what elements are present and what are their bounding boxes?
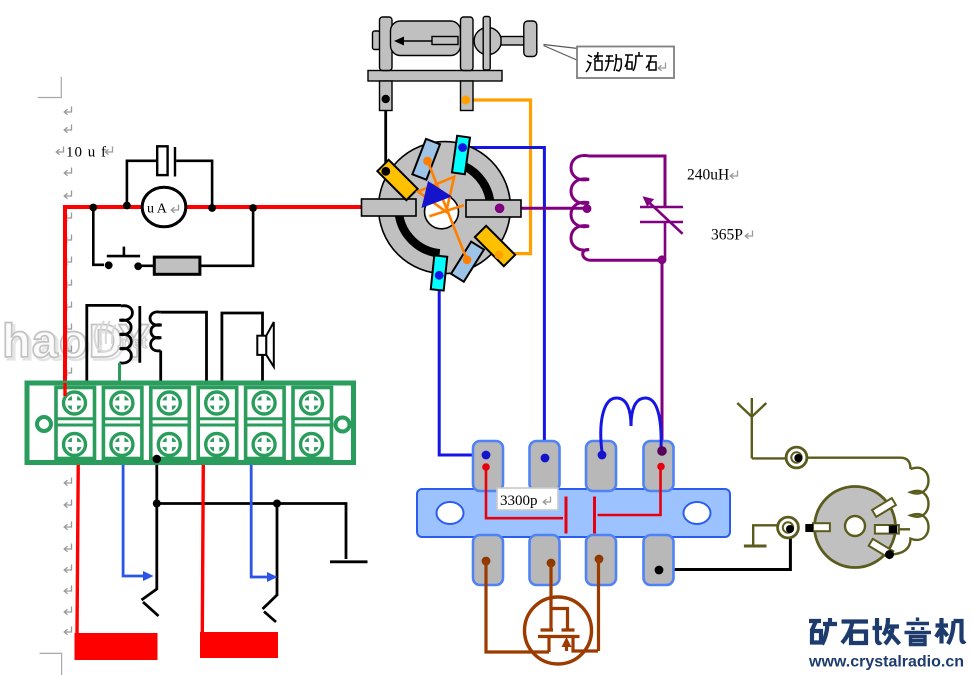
wire black from detector left leg down to rotary yellow tab bbox=[384, 99, 387, 170]
wire red cap to post4 bbox=[598, 467, 661, 516]
node blue dot on cyan tab bbox=[458, 143, 467, 152]
node black dot terminal 3 bottom bbox=[153, 455, 161, 463]
wire connector to coil bbox=[807, 458, 911, 469]
node black dot on yellow tab bbox=[381, 167, 390, 176]
detector knob bbox=[524, 21, 537, 57]
node brown dots on bottom posts bbox=[482, 557, 491, 566]
gate 2 lead shape bbox=[552, 609, 568, 630]
char 矿 bbox=[625, 52, 643, 71]
wire post1 bottom to source bbox=[486, 561, 549, 652]
crystal holder hole bbox=[845, 516, 865, 536]
node black dot post 4 bottom bbox=[655, 566, 664, 575]
node dot bbox=[134, 262, 142, 270]
battery red block 2 bbox=[200, 632, 278, 658]
wire red battery 2 lead bbox=[202, 465, 203, 632]
detector base bar bbox=[368, 71, 502, 82]
wire red bus from battery corner to rotary switch left tab bbox=[65, 207, 362, 396]
rotary yellow tab bottom-right bbox=[475, 226, 515, 266]
wire secondary bottom to terminal 3 bbox=[159, 351, 162, 384]
strip hole right bbox=[684, 502, 711, 524]
green terminal block body bbox=[27, 383, 354, 463]
node junction dot bbox=[153, 500, 161, 508]
rotary cyan tab bottom bbox=[431, 255, 447, 290]
speaker LS1 box bbox=[257, 336, 266, 355]
wire blue from rotary top cyan tab to terminal post 2 bbox=[463, 148, 545, 456]
3300p label box bbox=[497, 488, 558, 510]
transformer core bar bbox=[138, 306, 141, 363]
strip hole left bbox=[437, 502, 464, 524]
char 活 bbox=[586, 52, 603, 72]
detector thin post bbox=[483, 17, 490, 71]
antenna symbol bbox=[737, 398, 766, 458]
char 音 bbox=[905, 618, 932, 645]
connector J1 antenna binding post bbox=[786, 447, 807, 468]
wire to resistor bbox=[141, 264, 154, 267]
source lead bbox=[547, 637, 550, 653]
callout box 活动矿石 bbox=[577, 47, 674, 79]
svg-text:240uH: 240uH bbox=[687, 167, 729, 184]
diode axis orange line bbox=[428, 161, 468, 260]
holder slot left bbox=[813, 523, 830, 531]
callout leader lines bbox=[544, 45, 579, 61]
rotary right tab bbox=[466, 200, 521, 217]
node orange dot top tab bbox=[423, 157, 432, 166]
antenna coil L2 bbox=[890, 468, 929, 555]
coil tap wire bbox=[897, 528, 910, 530]
rotary light-blue tab bottom bbox=[451, 242, 484, 282]
node purple dot post 4 bbox=[657, 446, 667, 456]
transistor circle bbox=[525, 597, 592, 664]
node black dot bottom slot bbox=[885, 550, 894, 559]
gate bars bbox=[541, 628, 575, 631]
node dot bbox=[105, 261, 113, 269]
node orange dot bottom tab bbox=[463, 255, 472, 264]
electrolytic capacitor 10uF plate 1 bbox=[157, 146, 167, 175]
rotary wave-change switch disc bbox=[379, 142, 511, 274]
push button switch bbox=[107, 247, 140, 257]
svg-text:3300p: 3300p bbox=[500, 493, 538, 509]
wire blue arrow lead 2 bbox=[251, 461, 270, 577]
substrate bracket bbox=[573, 638, 598, 652]
terminal cells bbox=[56, 388, 332, 459]
rotary black arc contact bottom-left bbox=[399, 213, 440, 253]
detector stand assembly bbox=[368, 17, 537, 111]
transformer T1 primary coil bbox=[119, 306, 132, 363]
meter uA circle bbox=[142, 187, 186, 227]
svg-text:www.crystalradio.cn: www.crystalradio.cn bbox=[808, 654, 964, 671]
blue terminal strip bar bbox=[417, 489, 730, 537]
channel bar bbox=[538, 635, 580, 638]
wire red post1 to cap bbox=[486, 467, 563, 518]
wire red into terminal 1 bbox=[63, 383, 66, 396]
switch lever S2 open bbox=[263, 595, 278, 622]
crystal holder disc bbox=[815, 487, 896, 568]
wire purple from LC junction down to terminal post 4 bbox=[661, 260, 664, 451]
node dot bbox=[89, 204, 97, 212]
mounting hole right bbox=[336, 418, 350, 432]
node purple junction dot bbox=[658, 255, 667, 264]
detector left leg bbox=[380, 81, 393, 111]
node purple tap dot bbox=[583, 204, 592, 213]
detector left end tab bbox=[373, 31, 381, 50]
detector right leg bbox=[461, 81, 474, 111]
holder slot right bbox=[875, 525, 899, 534]
wire black from right connector to terminal post 4 bottom bbox=[659, 529, 790, 570]
detector handle rod bbox=[501, 37, 525, 46]
node blue dot on bottom cyan tab bbox=[435, 271, 444, 280]
svg-text:u A: u A bbox=[147, 202, 168, 217]
connector J2 ground binding post bbox=[778, 517, 799, 538]
page margin corner mark top-left bbox=[38, 77, 62, 98]
wire capacitor left lead bbox=[127, 161, 157, 204]
rotary left tab bbox=[362, 199, 417, 216]
rotary center hole bbox=[425, 195, 459, 229]
char 动 bbox=[605, 54, 621, 71]
wire orange from detector right leg to rotary yellow tab lower-right bbox=[466, 100, 531, 254]
resistor R1 bbox=[154, 257, 200, 274]
substrate arrow lead bbox=[565, 642, 568, 651]
diode triangle blue fill bbox=[422, 181, 453, 208]
node black dot on left leg bbox=[382, 95, 390, 103]
node blue dots on top posts bbox=[482, 451, 491, 460]
wire speaker loop bbox=[222, 313, 263, 384]
rotary light-blue tab top bbox=[412, 139, 440, 180]
svg-text:365P: 365P bbox=[711, 227, 743, 244]
transformer T1 primary wire bbox=[87, 305, 121, 381]
wire post2 bottom gate lead bbox=[549, 563, 552, 629]
node orange dot yellow tab bbox=[494, 250, 503, 259]
paragraph marks column bbox=[56, 107, 112, 635]
char 收 bbox=[873, 618, 900, 644]
wire coil top to cap bbox=[589, 156, 665, 207]
detector ball joint bbox=[474, 27, 501, 54]
node dot bbox=[208, 204, 216, 212]
strip posts grey bbox=[473, 441, 674, 585]
char 石 bbox=[842, 622, 869, 644]
inductor L1 240uH purple coil bbox=[571, 155, 592, 260]
holder slot top-right bbox=[872, 498, 896, 517]
wire antenna to connector bbox=[752, 457, 786, 459]
wire capacitor right lead bbox=[176, 161, 212, 206]
wire purple from rotary right tab to coil tap bbox=[500, 207, 587, 210]
rotary cyan tab top-right bbox=[452, 136, 470, 174]
char 机 bbox=[936, 618, 966, 644]
capacitor plate 2 bbox=[174, 147, 176, 177]
wire branch to push switch bbox=[93, 208, 104, 265]
wire green coil tail to terminal 2 bbox=[118, 363, 121, 384]
detector middle post bbox=[461, 17, 474, 71]
mounting hole left bbox=[37, 417, 51, 431]
holder black square left bbox=[805, 524, 813, 532]
holder slot bottom-right bbox=[869, 539, 894, 558]
logo 矿石收音机 bbox=[809, 618, 965, 645]
node purple dot right tab bbox=[495, 204, 505, 214]
substrate arrowhead bbox=[562, 637, 572, 647]
blue jumper arcs posts 3-4 bbox=[601, 398, 661, 452]
diode cathode bar orange bbox=[429, 205, 464, 216]
svg-text:10 u f: 10 u f bbox=[66, 145, 107, 161]
rotary black arc contact top-right bbox=[465, 166, 491, 205]
holder black square right bbox=[889, 525, 897, 533]
rotary yellow tab top-left bbox=[377, 160, 417, 200]
node dot bbox=[123, 202, 131, 210]
terminal screws bbox=[64, 392, 323, 456]
detector left post bbox=[380, 17, 393, 71]
paragraph mark in callout bbox=[658, 63, 665, 71]
wire blue from rotary bottom cyan tab to terminal post 1 bbox=[439, 275, 486, 455]
detector arrow bbox=[399, 40, 432, 42]
transistor Q1 circuit brown bbox=[486, 559, 599, 652]
wire connector to ground bbox=[753, 525, 777, 545]
node orange dot on right leg bbox=[461, 96, 470, 105]
transformer T1 secondary coil bbox=[150, 312, 161, 351]
char 矿 bbox=[809, 618, 837, 645]
node red dots posts 1 and 4 bbox=[482, 463, 490, 471]
speaker horn bbox=[266, 322, 274, 367]
wire resistor to red bus bbox=[200, 209, 253, 266]
wire post3 bottom lead bbox=[597, 559, 600, 651]
detector slider rect bbox=[432, 37, 458, 45]
wire black branch to switch lever 2 bbox=[276, 504, 279, 597]
switch lever S1 open bbox=[142, 589, 159, 616]
capacitor red plates inside strip bbox=[566, 497, 595, 534]
page margin corner mark bottom-left bbox=[40, 653, 62, 675]
char 石 bbox=[646, 56, 657, 70]
variable capacitor arrow bbox=[647, 201, 683, 234]
watermark haoby.net bbox=[2, 314, 152, 370]
wire black bus below terminal block with ground bbox=[157, 459, 368, 590]
ground bar bbox=[744, 545, 767, 548]
wire blue arrow lead 1 bbox=[123, 461, 146, 576]
node junction dot bbox=[273, 500, 281, 508]
variable capacitor C-365P plates bbox=[640, 207, 683, 260]
wire red battery 1 lead bbox=[77, 456, 78, 634]
wire coil bottom to junction bbox=[592, 259, 663, 262]
battery red block 1 bbox=[75, 633, 158, 660]
node dot bbox=[249, 204, 257, 212]
wire secondary top to terminal 4 bbox=[160, 312, 206, 383]
diode triangle orange outline bbox=[418, 177, 454, 212]
detector barrel body bbox=[391, 21, 461, 56]
